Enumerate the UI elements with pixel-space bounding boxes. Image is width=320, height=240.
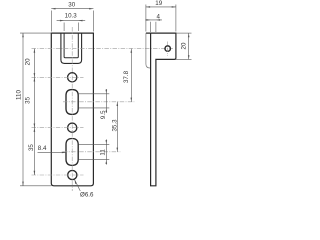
- svg-text:8.4: 8.4: [38, 145, 47, 152]
- side view hook outer face: [146, 33, 150, 68]
- dimension 20 right: [176, 33, 192, 59]
- horizontal centerline top hole (long, to side view): [32, 48, 174, 50]
- svg-text:4: 4: [156, 13, 160, 20]
- svg-text:10.3: 10.3: [65, 13, 78, 20]
- centerline circle 1: [32, 76, 84, 78]
- svg-text:Ø6.6: Ø6.6: [80, 191, 94, 198]
- dimension 35.3: [117, 102, 119, 152]
- front view plate outline: [51, 33, 93, 186]
- svg-text:9.5: 9.5: [100, 110, 107, 119]
- svg-text:19: 19: [155, 0, 162, 7]
- dimension 19: [146, 5, 176, 32]
- hole circle 2: [68, 123, 77, 132]
- vertical centerline front view: [71, 27, 73, 191]
- svg-text:35: 35: [28, 144, 35, 151]
- hook outer U profile: [61, 33, 82, 63]
- svg-text:110: 110: [15, 90, 22, 100]
- dimension 11: [106, 139, 108, 164]
- svg-text:35.3: 35.3: [111, 119, 118, 132]
- svg-text:20: 20: [181, 42, 188, 49]
- dimension 110 left: [20, 33, 51, 186]
- inner slot U 10.3: [64, 33, 78, 58]
- svg-text:37.8: 37.8: [123, 70, 130, 83]
- centerline slot 1: [63, 101, 134, 103]
- hole circle 3: [68, 170, 77, 179]
- centerline circle 2: [32, 127, 84, 129]
- extension lines slot 1 arc centers: [79, 94, 110, 108]
- dimension 10.3: [57, 20, 86, 31]
- dimension 37.8: [131, 49, 133, 102]
- hole circle 1: [68, 73, 77, 82]
- svg-text:30: 30: [68, 2, 75, 9]
- svg-text:20: 20: [25, 58, 32, 65]
- dimension 9.5: [106, 89, 108, 113]
- side view outline: [146, 33, 176, 186]
- slot 2 obround: [66, 139, 78, 166]
- slot 1 obround: [66, 90, 78, 115]
- centerline circle 3: [32, 174, 84, 176]
- dimension 4: [145, 19, 162, 32]
- chain dimension line left 20/35/35: [34, 49, 36, 175]
- dimension 30 top: [51, 8, 93, 32]
- centerline slot 2: [63, 151, 120, 153]
- extension lines slot 2 arc centers: [79, 144, 110, 159]
- svg-text:35: 35: [25, 96, 32, 103]
- side view hole vertical centerline: [167, 42, 169, 57]
- leader 8.4 slot width: [38, 152, 67, 154]
- leader diameter 6.6: [75, 180, 81, 191]
- svg-text:11: 11: [100, 149, 107, 156]
- side view hole: [165, 46, 170, 51]
